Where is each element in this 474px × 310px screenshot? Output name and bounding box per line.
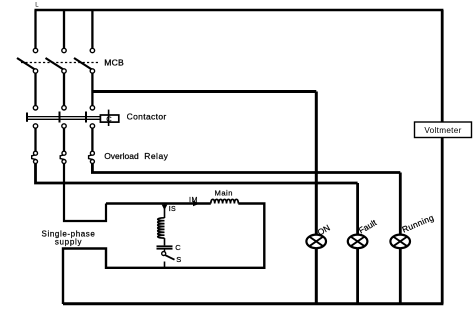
- svg-text:Contactor: Contactor: [127, 112, 167, 122]
- svg-text:Relay: Relay: [144, 151, 168, 161]
- svg-text:supply: supply: [55, 238, 82, 247]
- svg-text:IS: IS: [169, 206, 176, 213]
- svg-text:Voltmeter: Voltmeter: [424, 126, 461, 135]
- svg-text:MCB: MCB: [104, 58, 124, 68]
- svg-text:C: C: [175, 243, 181, 252]
- svg-text:C: C: [106, 114, 112, 123]
- svg-text:S: S: [176, 255, 181, 264]
- svg-text:Main: Main: [215, 188, 233, 197]
- svg-text:IM: IM: [189, 195, 198, 204]
- svg-text:Overload: Overload: [104, 151, 139, 161]
